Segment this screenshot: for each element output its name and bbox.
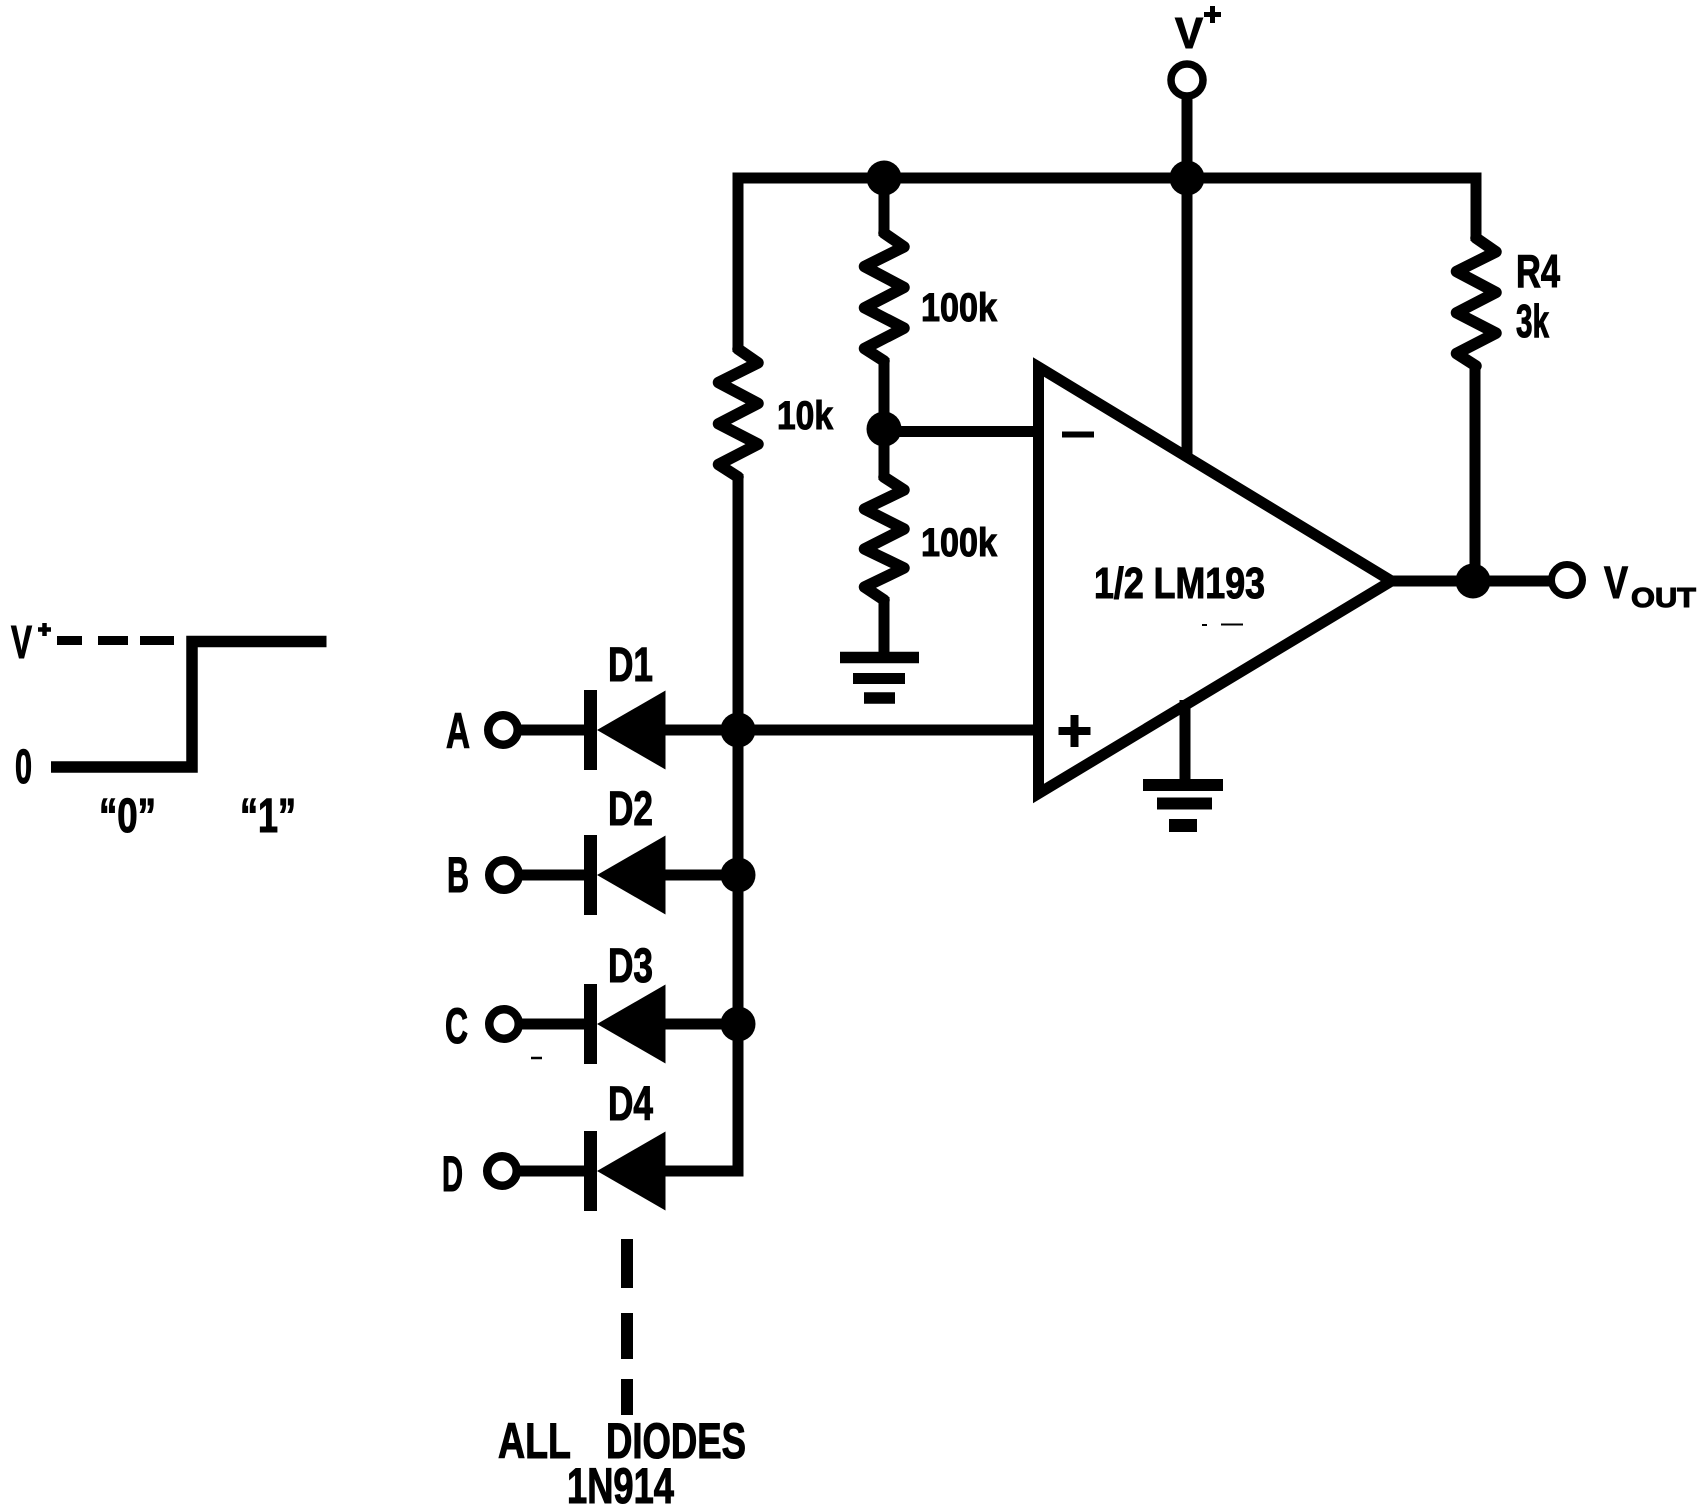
wire: terminal D to D4 — [519, 1166, 586, 1177]
terminal D — [487, 1156, 517, 1186]
wire: D2 to node B — [663, 870, 743, 881]
junction: node A on bus — [721, 713, 756, 748]
junction: node B on bus — [721, 858, 756, 893]
resistor R3 100k — [865, 477, 905, 600]
svg-text:D1: D1 — [608, 639, 653, 692]
wire: terminal B to D2 — [521, 870, 586, 881]
wire: R2 to inverting node — [879, 358, 890, 432]
wire: op-amp output — [1390, 576, 1552, 587]
svg-text:100k: 100k — [921, 521, 998, 565]
label + input — [1059, 715, 1091, 747]
resistor R1 10k — [719, 349, 759, 477]
diode D2 — [591, 835, 666, 915]
op-amp U1 1/2 LM193 — [1039, 367, 1392, 794]
wire: rail down to R1 — [733, 173, 744, 353]
label VOUT — [1604, 557, 1696, 613]
wire: D4 to bus corner — [663, 1166, 738, 1177]
dashed V+ level line — [57, 636, 174, 645]
terminal A — [488, 715, 518, 745]
label - input — [1062, 432, 1094, 438]
waveform step 0 to 1 — [51, 642, 327, 768]
ground (op-amp) — [1143, 785, 1223, 826]
junction: rail / divider node — [867, 161, 902, 196]
junction: node C on bus — [721, 1007, 756, 1042]
svg-text:D4: D4 — [608, 1078, 653, 1131]
wire: op-amp ground pin — [1180, 700, 1191, 785]
svg-text:B: B — [447, 847, 469, 903]
resistor R4 3k — [1457, 238, 1497, 366]
wire: D1 to node A — [663, 725, 743, 736]
svg-text:0: 0 — [15, 741, 32, 794]
svg-text:V: V — [1175, 9, 1204, 58]
svg-text:C: C — [445, 998, 468, 1054]
wire: R4 to output node — [1470, 363, 1481, 581]
wire: inverting input to op-amp — [884, 426, 1044, 437]
wire: terminal C to D3 — [521, 1019, 586, 1030]
junction: output node — [1456, 564, 1491, 599]
svg-text:ALL: ALL — [498, 1413, 571, 1469]
svg-text:A: A — [446, 703, 470, 759]
svg-text:D: D — [442, 1146, 463, 1202]
scan artifact dash under label — [1202, 624, 1243, 627]
svg-text:OUT: OUT — [1631, 582, 1696, 613]
svg-text:3k: 3k — [1516, 295, 1549, 347]
svg-text:100k: 100k — [921, 286, 998, 330]
resistor R2 100k — [865, 233, 905, 361]
terminal C — [489, 1009, 519, 1039]
diode D4 — [591, 1131, 666, 1211]
wire: R3 to ground — [879, 597, 890, 652]
wire: node down to R3 — [879, 427, 890, 480]
svg-text:D2: D2 — [608, 783, 653, 836]
svg-text:10k: 10k — [777, 394, 834, 438]
label V+ (waveform) — [11, 616, 51, 668]
terminal VOUT — [1552, 565, 1583, 596]
diode D1 — [591, 690, 666, 770]
wire: V+ rail down to op-amp top edge — [1182, 173, 1193, 460]
terminal B — [489, 860, 519, 890]
junction: inverting input node — [867, 412, 902, 447]
wire: terminal A to D1 — [520, 725, 586, 736]
svg-text:V: V — [1604, 557, 1628, 608]
svg-text:V: V — [11, 616, 32, 668]
svg-text:“0”: “0” — [99, 790, 156, 843]
ground (below R3) — [840, 658, 919, 699]
svg-text:D3: D3 — [608, 940, 653, 993]
wire: rail down to R2 — [879, 173, 890, 237]
svg-text:1/2 LM193: 1/2 LM193 — [1094, 559, 1265, 608]
terminal V+ — [1171, 64, 1203, 96]
dashed continuation below D4 — [621, 1239, 633, 1415]
diode D3 — [591, 984, 666, 1064]
scan artifact tick below C — [531, 1057, 542, 1060]
junction: rail / V+ — [1170, 161, 1205, 196]
svg-text:1N914: 1N914 — [567, 1458, 674, 1505]
wire: top supply rail — [733, 173, 1482, 184]
note ALL DIODES — [498, 1413, 746, 1469]
wire: V+ terminal to rail — [1182, 97, 1193, 178]
wire: R1 to input bus and bus down to D row — [660, 474, 738, 1171]
wire: non-inverting input (node A to op-amp) — [738, 725, 1044, 736]
wire: D3 to node C — [663, 1019, 743, 1030]
wire: rail down to R4 — [1471, 173, 1482, 242]
svg-text:“1”: “1” — [240, 790, 296, 843]
label V+ (supply) — [1175, 6, 1221, 58]
svg-text:R4: R4 — [1516, 245, 1560, 297]
